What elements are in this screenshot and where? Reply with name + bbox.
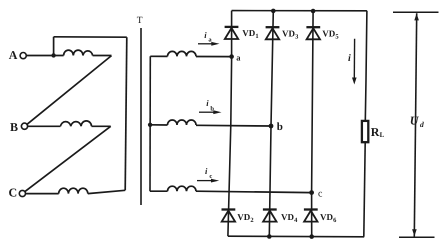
svg-text:6: 6 bbox=[333, 217, 337, 224]
svg-text:A: A bbox=[9, 48, 18, 62]
svg-text:i: i bbox=[206, 98, 209, 108]
svg-text:VD: VD bbox=[242, 28, 255, 38]
svg-text:b: b bbox=[277, 121, 283, 133]
svg-text:i: i bbox=[205, 166, 208, 176]
svg-text:U: U bbox=[410, 114, 420, 128]
svg-text:VD: VD bbox=[237, 212, 250, 222]
svg-text:L: L bbox=[380, 131, 385, 139]
svg-text:T: T bbox=[137, 16, 143, 26]
svg-text:4: 4 bbox=[294, 217, 298, 224]
svg-text:5: 5 bbox=[335, 34, 339, 41]
svg-text:VD: VD bbox=[322, 29, 335, 39]
svg-text:VD: VD bbox=[320, 212, 333, 222]
svg-text:c: c bbox=[318, 188, 323, 199]
svg-text:2: 2 bbox=[250, 217, 253, 224]
svg-text:i: i bbox=[204, 30, 207, 40]
svg-text:b: b bbox=[210, 105, 214, 112]
svg-text:1: 1 bbox=[255, 33, 258, 40]
svg-text:c: c bbox=[209, 173, 212, 180]
svg-text:d: d bbox=[420, 120, 424, 129]
svg-text:B: B bbox=[10, 120, 18, 134]
svg-text:i: i bbox=[348, 53, 351, 64]
svg-text:R: R bbox=[371, 125, 380, 139]
svg-text:a: a bbox=[236, 53, 241, 63]
svg-text:C: C bbox=[9, 185, 18, 199]
svg-text:VD: VD bbox=[281, 212, 294, 222]
svg-text:VD: VD bbox=[282, 29, 295, 39]
svg-text:3: 3 bbox=[295, 34, 299, 41]
